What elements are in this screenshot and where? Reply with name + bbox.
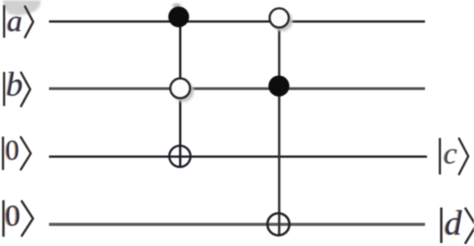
control dot (filled) col1 on wire a (168, 7, 189, 28)
wire qubit b (49, 87, 425, 90)
svg-text:0: 0 (5, 199, 20, 233)
label ket angle b (21, 73, 30, 107)
label ket angle d (466, 209, 474, 244)
control dot (filled) col2 on wire b (268, 76, 289, 97)
CNOT target col1 on wire c (169, 146, 190, 167)
CNOT target col2 on wire d (267, 213, 289, 235)
open control (anti-control) col2 on wire a (270, 8, 289, 27)
svg-text:0: 0 (5, 136, 19, 167)
wire vertical gate column 2 (278, 18, 280, 236)
shadow artifact under open control col1 (173, 81, 194, 102)
gray scan-artifact blob behind label a (3, 0, 42, 16)
wire vertical gate column 1 (179, 14, 181, 167)
label ket angle 0 row3 (21, 137, 31, 169)
wire qubit a (49, 20, 425, 22)
gray nub above control dot col1 (173, 3, 181, 7)
label ket angle 0 row4 (22, 201, 33, 236)
open control (anti-control) col1 on wire b (170, 78, 190, 98)
wire qubit c (|0>) (49, 156, 427, 158)
wire qubit d (|0>) (49, 223, 425, 226)
label ket bar |a (3, 5, 5, 38)
label ket angle a (25, 7, 33, 38)
label ket angle c (459, 139, 468, 175)
shadow artifact under open control col2 (272, 11, 293, 32)
label ket bar |d (440, 208, 442, 244)
label ket bar |0 row4 (2, 200, 4, 237)
label ket bar |b (3, 72, 5, 106)
label ket bar |0 row3 (2, 137, 4, 170)
svg-text:d: d (445, 204, 463, 243)
label ket bar |c (439, 138, 441, 175)
svg-text:c: c (444, 135, 458, 170)
svg-text:a: a (7, 3, 23, 38)
